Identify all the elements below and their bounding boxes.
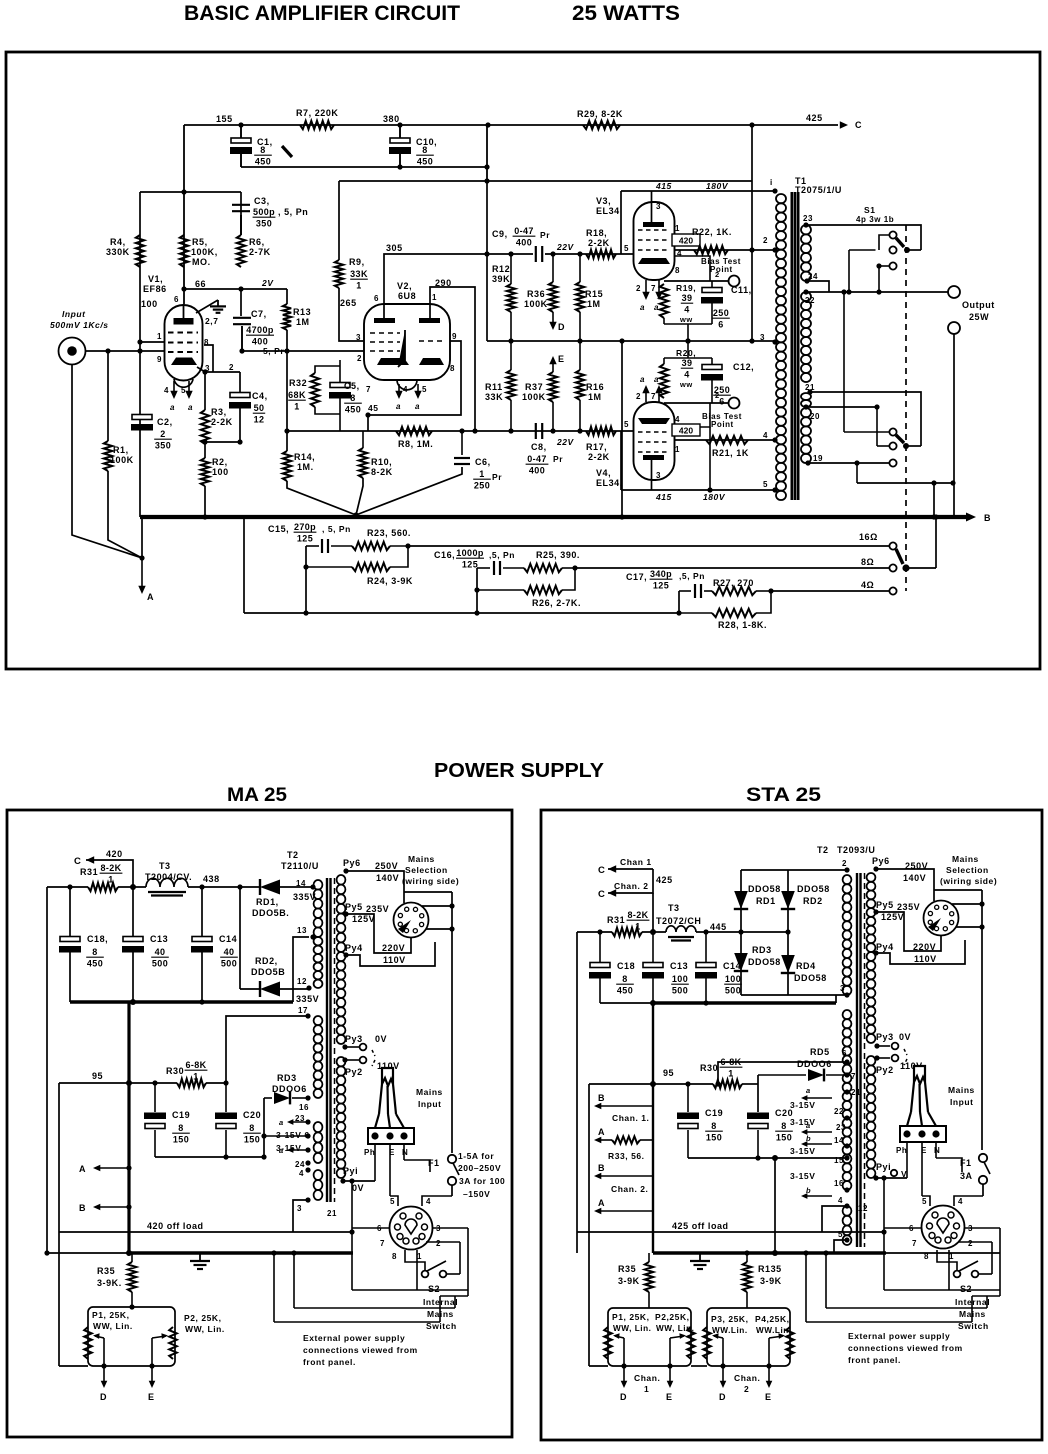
fuse F1 bottom STA <box>979 1176 987 1184</box>
svg-text:ww: ww <box>679 380 693 389</box>
T2 STA Py4 <box>873 950 878 955</box>
svg-text:C3,: C3, <box>254 196 270 206</box>
V3 cathode slab <box>638 258 670 264</box>
svg-text:2: 2 <box>436 1239 441 1248</box>
T2 STA pin 6 <box>844 1059 849 1064</box>
V4 pin7 arrow <box>658 388 660 402</box>
T2 STA core <box>856 873 858 1247</box>
wire: x306 link <box>305 546 307 613</box>
T1 pin 5 <box>772 487 777 492</box>
resistor R27 <box>712 587 756 595</box>
svg-text:1-5A for: 1-5A for <box>458 1151 494 1161</box>
svg-text:RD3: RD3 <box>277 1073 297 1083</box>
resistor R20 <box>660 364 668 398</box>
wire: 0V thick rail MA <box>70 1000 293 1003</box>
wire: y292 to output terminal 1 <box>806 291 948 293</box>
S1 wiper mid <box>903 443 909 449</box>
wire: plug N down <box>403 1144 405 1160</box>
wire: selector out lower STA <box>956 926 982 928</box>
junction x752/y250 <box>749 247 754 252</box>
wire: x294 down MA <box>293 1253 295 1308</box>
wire C10 top lead <box>399 125 401 138</box>
resistor R28 <box>712 609 756 617</box>
rectifier RD1 STA <box>734 891 748 909</box>
svg-text:2: 2 <box>636 392 641 401</box>
V3 anode bar <box>643 222 664 227</box>
wire: C13 bottom lead STA <box>652 978 654 1003</box>
svg-text:E: E <box>666 1392 673 1402</box>
T2 MA mains winding lower <box>337 1057 346 1066</box>
svg-text:b: b <box>806 1134 811 1143</box>
svg-text:DDO58: DDO58 <box>794 973 827 983</box>
svg-text:2-7K: 2-7K <box>249 247 271 257</box>
choke T3 STA <box>666 926 696 932</box>
svg-text:R9,: R9, <box>349 257 365 267</box>
wire: x992 to S2 <box>991 1242 993 1274</box>
svg-text:0V: 0V <box>352 1183 364 1193</box>
wire: tap wiper to bus <box>906 567 936 569</box>
svg-text:BASIC AMPLIFIER CIRCUIT: BASIC AMPLIFIER CIRCUIT <box>184 2 460 25</box>
svg-text:305: 305 <box>386 243 403 253</box>
wire: bridge left column <box>740 870 742 995</box>
svg-text:S2: S2 <box>428 1284 440 1294</box>
svg-text:3-9K.: 3-9K. <box>97 1278 122 1288</box>
junction C18/y932 <box>597 929 602 934</box>
svg-text:150: 150 <box>776 1133 792 1143</box>
resistor R135 STA <box>743 1262 751 1292</box>
wire: 4 ohm line <box>771 590 889 592</box>
wire: x241 to C7 <box>240 289 242 316</box>
resistor R6 <box>237 235 245 267</box>
capacitor C14 MA <box>192 937 212 942</box>
svg-text:0V: 0V <box>375 1034 387 1044</box>
wire: pin1 to mesh <box>416 1262 418 1290</box>
resistor R11 <box>507 370 515 400</box>
capacitor C20 MA <box>215 1113 237 1120</box>
fuse F1 top MA <box>448 1155 456 1163</box>
svg-text:a: a <box>279 1118 284 1127</box>
svg-text:2: 2 <box>968 1239 973 1248</box>
V1 anode bar <box>174 318 194 325</box>
junction selector/x452 upper <box>449 903 454 908</box>
junction C14/0V <box>703 1000 708 1005</box>
svg-text:a: a <box>396 402 401 411</box>
stub b2 STA <box>804 1195 832 1197</box>
svg-text:250: 250 <box>474 481 490 491</box>
pentode V4 EL34 envelope <box>634 402 675 480</box>
capacitor C1 <box>231 138 251 143</box>
wire: x972 up STA <box>971 1296 973 1322</box>
svg-text:connections viewed from: connections viewed from <box>303 1345 418 1355</box>
tap contact 8 <box>889 564 896 571</box>
wire: y1083 mid <box>129 1082 177 1084</box>
T1 pin 3 <box>772 339 777 344</box>
svg-text:450: 450 <box>255 157 271 167</box>
svg-text:8: 8 <box>622 974 627 984</box>
svg-text:Chan. 2: Chan. 2 <box>614 881 649 891</box>
svg-text:1: 1 <box>157 332 162 341</box>
wire: x108 to R1 <box>107 351 109 441</box>
svg-text:100: 100 <box>141 299 158 309</box>
capacitor C2 <box>132 415 152 420</box>
svg-text:95: 95 <box>663 1068 674 1078</box>
wire: Py5 to selector <box>346 914 411 953</box>
svg-text:N: N <box>934 1146 940 1155</box>
wire: y932 left segment <box>577 931 612 933</box>
resistor R31 STA <box>612 928 642 936</box>
resistor R3 <box>201 410 209 444</box>
svg-text:POWER SUPPLY: POWER SUPPLY <box>434 760 605 782</box>
wire: socket pin3 out STA <box>965 1227 1000 1229</box>
T2 STA Py3 <box>874 1043 879 1048</box>
wire: wiper to x921 <box>907 249 921 251</box>
svg-text:6: 6 <box>718 320 723 330</box>
svg-text:Pyi: Pyi <box>343 1166 358 1176</box>
V4 420 tag <box>672 424 700 436</box>
svg-text:C: C <box>598 889 605 900</box>
svg-text:STA 25: STA 25 <box>746 785 822 806</box>
junction E/bottom <box>149 1363 154 1368</box>
svg-text:front panel.: front panel. <box>303 1357 356 1367</box>
junction 290/y431 <box>472 428 477 433</box>
svg-text:Selection: Selection <box>405 865 448 875</box>
capacitor C9 <box>535 246 537 262</box>
S1 contact mid-1 <box>889 428 896 435</box>
wire: to socket pin5 STA <box>922 1196 930 1206</box>
capacitor C3 <box>232 204 250 206</box>
ground MA <box>199 1253 201 1261</box>
wire: Py2 stub <box>345 1059 359 1061</box>
svg-text:1: 1 <box>294 402 299 412</box>
T1 pin 4 <box>772 437 777 442</box>
wire: x826 down STA <box>825 1253 827 1308</box>
wire: R16 bottom lead <box>579 400 581 431</box>
mains input plug STA <box>914 1066 925 1084</box>
wire: x775 to bus STA <box>774 1158 776 1253</box>
wire: V2 pin9 / cathode bus <box>368 341 461 415</box>
svg-text:Chan.: Chan. <box>734 1373 760 1383</box>
wire: y1296 link STA <box>972 1295 1000 1297</box>
svg-text:MA 25: MA 25 <box>227 785 287 806</box>
svg-text:T2: T2 <box>817 845 829 855</box>
junction contact3 <box>876 263 881 268</box>
svg-text:Mains: Mains <box>408 854 435 864</box>
svg-text:3-15V: 3-15V <box>790 1117 815 1127</box>
V4 cathode slab <box>638 418 670 424</box>
wire: x468 vertical MA <box>467 1228 469 1296</box>
wire: R26 to node <box>562 568 575 590</box>
junction C14/y932 <box>703 929 708 934</box>
wire: R35 bottom lead <box>131 1292 133 1307</box>
svg-text:39: 39 <box>682 358 693 368</box>
svg-text:Output: Output <box>962 300 995 310</box>
junction R15 top <box>577 251 582 256</box>
junction x47/bus <box>44 1250 49 1255</box>
wire: C13 column bottom <box>132 952 134 1002</box>
wire: socket pin1 down <box>416 1250 418 1262</box>
svg-text:Mains: Mains <box>952 854 979 864</box>
wire: C14 column top <box>201 887 203 936</box>
svg-text:7: 7 <box>651 392 656 401</box>
svg-text:Point: Point <box>710 265 733 274</box>
stray pen mark <box>282 146 292 157</box>
wire: C20 bottom lead STA <box>757 1130 759 1158</box>
input jack <box>59 338 86 365</box>
wire: x452 right rail MA <box>451 892 453 1153</box>
wire: V2 anode 305 line <box>384 254 487 318</box>
wire: 415V line to T1 pin1 <box>621 190 775 192</box>
pentode V1 EF86 envelope <box>165 305 203 381</box>
svg-text:Ph: Ph <box>364 1148 375 1157</box>
svg-text:6-8K: 6-8K <box>720 1057 741 1067</box>
contact 110V MA <box>360 1057 367 1064</box>
svg-text:110V: 110V <box>914 954 937 964</box>
resistor R8 <box>396 427 432 435</box>
svg-text:Py2: Py2 <box>876 1065 894 1075</box>
wire: Chan1 C stub <box>608 868 653 870</box>
wire: C15 left lead <box>306 545 319 547</box>
resistor R17 <box>586 427 616 435</box>
wire: pin1 to mesh STA <box>948 1262 950 1290</box>
svg-text:7: 7 <box>651 284 656 293</box>
wire: x589 rail STA <box>588 1084 590 1232</box>
svg-text:R32: R32 <box>289 378 307 388</box>
junction pin6 link/y1084 <box>715 1081 720 1086</box>
svg-text:2: 2 <box>715 270 720 279</box>
svg-text:C14: C14 <box>723 961 741 971</box>
junction R3 bottom <box>202 439 207 444</box>
junction top rail / x488 drop <box>485 122 490 127</box>
svg-text:ww: ww <box>679 315 693 324</box>
wire: x622 to main bus <box>621 341 623 517</box>
svg-text:B: B <box>79 1203 86 1213</box>
wire: y1308 mesh MA <box>294 1307 455 1309</box>
wire: Py6 to selector STA <box>876 869 934 901</box>
junction pin20/x877 <box>874 404 879 409</box>
wire: Py1 0V line <box>343 1180 375 1182</box>
wire: y254 to C9 <box>487 253 533 255</box>
wire: RD3 left lead <box>264 1097 272 1099</box>
wire: R24 to node <box>390 546 408 567</box>
svg-text:V4,: V4, <box>596 468 611 478</box>
junction E2 <box>766 1363 771 1368</box>
junction input/R1 <box>105 348 110 353</box>
wire: R37 bottom lead <box>552 402 554 431</box>
svg-text:4: 4 <box>684 370 689 380</box>
stub b1 STA <box>804 1143 832 1145</box>
junction x274/bus <box>271 1250 276 1255</box>
V2 pin4 arrow <box>398 384 400 396</box>
T1 pin 21 dot <box>807 389 812 394</box>
wire: P2 wiper stem STA <box>669 1338 671 1366</box>
V2 left anode bar <box>374 318 395 323</box>
terminal E arrow MA <box>151 1366 153 1383</box>
junction D2 <box>720 1363 725 1368</box>
svg-text:8: 8 <box>422 145 427 155</box>
fuse F1 top STA <box>979 1154 987 1162</box>
wire: C13 column top <box>132 887 134 936</box>
resistor R4 <box>136 235 144 267</box>
capacitor C20 STA <box>747 1113 769 1120</box>
wire: bus thin extension STA <box>886 1252 1000 1254</box>
svg-text:7: 7 <box>912 1239 917 1248</box>
wire: R35 top lead <box>131 1253 133 1262</box>
svg-text:C13: C13 <box>150 934 168 944</box>
svg-text:2: 2 <box>715 391 720 400</box>
wire: selector top link STA <box>934 889 982 891</box>
junction R36 top <box>550 251 555 256</box>
junction 425/HT rail <box>650 929 656 935</box>
bias test point lower <box>729 398 740 409</box>
wire: C12 top lead <box>711 358 713 365</box>
V3 pin7 arrow <box>658 280 660 297</box>
S1 pole dashed link <box>905 225 907 591</box>
svg-text:RD2: RD2 <box>803 896 823 906</box>
wire: bus left thin <box>47 1252 129 1254</box>
resistor R14 <box>283 451 291 481</box>
svg-text:4: 4 <box>675 415 680 424</box>
wire: cap return left <box>600 1002 653 1004</box>
junction C20/y1157 <box>223 1154 228 1159</box>
wire: C18 column top <box>69 887 71 936</box>
wire: Py1 0V line STA <box>876 1177 907 1179</box>
svg-text:i: i <box>770 178 773 187</box>
svg-text:D: D <box>558 322 565 332</box>
junction feedback node on bus <box>353 512 358 517</box>
svg-text:2-2K: 2-2K <box>588 452 610 462</box>
junction x934/bus <box>931 514 936 519</box>
wire: thick bus STA <box>653 1251 886 1255</box>
svg-text:12: 12 <box>297 977 307 986</box>
junction x849/y292 <box>846 289 851 294</box>
wire: C11 top lead <box>711 281 713 288</box>
wire: R2 to bus <box>204 486 206 517</box>
svg-text:4p 3w 1b: 4p 3w 1b <box>856 215 894 224</box>
wire: y192 R4-C3 <box>140 191 241 193</box>
junction C18/y887 <box>67 884 72 889</box>
tap contact 16 <box>889 542 896 549</box>
svg-text:R135: R135 <box>758 1264 782 1274</box>
svg-text:R20,: R20, <box>676 348 696 358</box>
svg-text:420 off load: 420 off load <box>147 1221 204 1231</box>
V2 left cathode slab <box>377 358 409 365</box>
T2 MA pin 13 <box>310 934 315 939</box>
svg-text:R4,: R4, <box>110 237 126 247</box>
svg-text:25 WATTS: 25 WATTS <box>572 2 680 25</box>
wire: pin24 jog <box>807 281 829 292</box>
junction x884/425rail <box>881 1229 886 1234</box>
wire: socket pin6 out <box>352 1227 389 1229</box>
svg-text:6U8: 6U8 <box>398 291 416 301</box>
wire: N jog <box>404 1160 430 1172</box>
svg-text:270p: 270p <box>294 522 316 532</box>
stub B2 STA <box>597 1175 652 1177</box>
svg-text:,5, Pn: ,5, Pn <box>489 550 515 560</box>
wire: C5 top lead <box>339 366 341 382</box>
T2 STA mains winding upper <box>867 873 876 882</box>
svg-text:40: 40 <box>224 947 235 957</box>
wire: x589 lower STA <box>588 1232 590 1366</box>
svg-text:, 5, Pn: , 5, Pn <box>322 524 351 534</box>
wire: C6 to bus node <box>356 467 462 515</box>
svg-text:445: 445 <box>710 922 727 932</box>
junction x184 / y192 <box>181 189 186 194</box>
svg-text:R14,: R14, <box>294 452 315 462</box>
S1 contact top-1 <box>889 231 896 238</box>
svg-text:5: 5 <box>763 480 768 489</box>
capacitor C14 STA <box>696 963 716 968</box>
svg-text:a: a <box>279 1146 284 1155</box>
svg-text:125: 125 <box>462 560 478 570</box>
svg-text:Mains: Mains <box>948 1085 975 1095</box>
wire: x577 left rail STA <box>576 932 578 1253</box>
P1 wiper MA <box>95 1336 104 1338</box>
wire: Py4 to selector STA <box>876 940 965 964</box>
svg-text:8: 8 <box>675 266 680 275</box>
arrowhead to terminal C <box>840 121 848 128</box>
svg-text:250V: 250V <box>375 861 398 871</box>
svg-text:C: C <box>855 120 862 130</box>
wire: y1083 left <box>59 1082 129 1084</box>
svg-text:N: N <box>402 1148 408 1157</box>
svg-text:T3: T3 <box>159 861 171 871</box>
wire: x936 to bus <box>935 517 937 568</box>
svg-text:23: 23 <box>836 1123 846 1132</box>
svg-text:Py2: Py2 <box>345 1067 363 1077</box>
T2 STA pin 16 <box>844 1187 849 1192</box>
wire: x59 rail MA <box>58 1083 60 1232</box>
arrowhead C1 STA <box>608 865 616 872</box>
S1 contact mid-2 <box>889 442 896 449</box>
T2 MA core <box>326 878 328 1202</box>
svg-text:Input: Input <box>950 1097 974 1107</box>
svg-text:155: 155 <box>216 114 233 124</box>
svg-text:C16,: C16, <box>434 550 455 560</box>
svg-text:16Ω: 16Ω <box>859 532 878 542</box>
resistor R19 <box>660 284 668 318</box>
svg-text:1: 1 <box>644 1384 649 1394</box>
svg-text:R30: R30 <box>700 1063 718 1073</box>
transformer T1 primary winding <box>776 194 786 203</box>
stub B1 STA <box>597 1105 652 1107</box>
S1 contact mid-3 <box>889 459 896 466</box>
resistor R35 STA <box>645 1262 653 1292</box>
svg-text:415: 415 <box>655 492 672 502</box>
junction selector/x982 upper <box>979 901 984 906</box>
svg-text:380: 380 <box>383 114 400 124</box>
wire: pin6 to R30 row <box>718 1062 847 1084</box>
resistor R5 <box>180 235 188 267</box>
T2 MA Py6 <box>343 868 348 873</box>
svg-text:22V: 22V <box>556 242 575 252</box>
switch S2 contact2 STA <box>972 1271 979 1278</box>
svg-text:EL34: EL34 <box>596 206 620 216</box>
wire: C20 bottom lead <box>225 1130 227 1157</box>
wire: contact3 stub <box>879 265 889 267</box>
svg-text:4: 4 <box>838 1196 843 1205</box>
potentiometer P1 STA <box>604 1327 612 1359</box>
wire: socket pin1 down STA <box>948 1250 950 1262</box>
potentiometer P1 MA <box>84 1327 92 1359</box>
svg-text:335V: 335V <box>293 892 316 902</box>
wire: y1322 mesh MA <box>274 1321 440 1323</box>
junction R16 bottom <box>577 428 582 433</box>
V1 pin5 arrow <box>188 381 190 396</box>
junction x477/R26 <box>474 587 479 592</box>
wire: x241 C3 column <box>240 192 242 235</box>
T2 STA winding 4-5 <box>843 1206 852 1216</box>
resistor R29 <box>583 121 620 129</box>
